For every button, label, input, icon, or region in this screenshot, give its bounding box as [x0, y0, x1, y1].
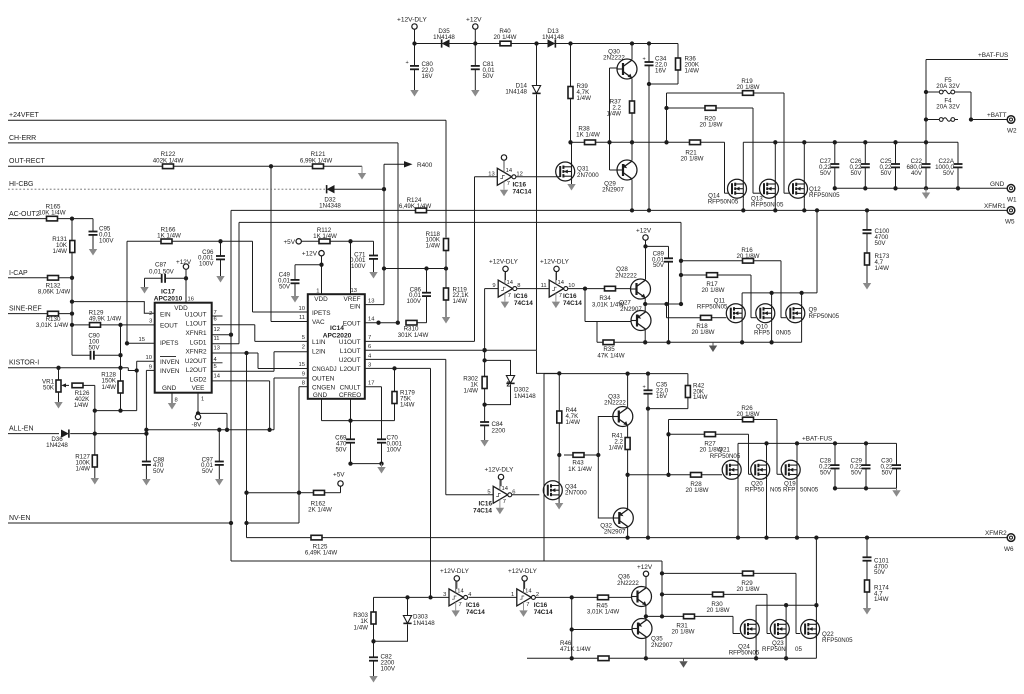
wire EIN jog [72, 302, 155, 314]
svg-text:15: 15 [139, 337, 145, 343]
wire Q10 source [771, 323, 773, 343]
wire R28 to Q21 gate [669, 474, 691, 476]
svg-text:CFREO: CFREO [339, 392, 361, 399]
wire inverter4 to inverter1 [469, 596, 517, 598]
off-page arrow after R121 [361, 166, 363, 173]
svg-text:1K 1/4W: 1K 1/4W [576, 132, 600, 139]
wire XFNR2 to CNGADJ [257, 353, 259, 369]
capacitor C80 [414, 44, 416, 66]
svg-text:VREF: VREF [343, 296, 360, 303]
wire Q34 drain [558, 455, 560, 481]
rail gnd caps bottom [835, 187, 1007, 189]
svg-text:14: 14 [368, 316, 375, 322]
svg-text:1K 1/4W: 1K 1/4W [568, 466, 592, 473]
wire Q21 vert [737, 443, 739, 460]
svg-text:3: 3 [149, 319, 152, 325]
wire R21 to Q14 gate [724, 142, 726, 193]
mosfet Q13 [760, 179, 779, 198]
wire VEE rail [198, 412, 227, 414]
wire Q35 base node down [571, 630, 573, 659]
svg-text:100V: 100V [381, 665, 396, 672]
wire F5 to F4 [958, 91, 971, 93]
svg-text:IC16: IC16 [479, 501, 493, 508]
wire R43 to bases [598, 417, 613, 456]
svg-text:L1OUT: L1OUT [186, 321, 207, 328]
svg-text:L1OUT: L1OUT [340, 348, 361, 355]
svg-text:7: 7 [459, 602, 462, 608]
svg-text:14: 14 [507, 280, 514, 286]
wire D32 to R400 riser [335, 188, 385, 190]
mosfet Q24 [740, 620, 759, 639]
wire inverter6 to Q34 gate [512, 494, 540, 496]
svg-text:+12V: +12V [302, 250, 318, 257]
wire Q28 Q27 emitters [644, 298, 646, 311]
svg-text:74C14: 74C14 [514, 300, 533, 307]
wire bank4 gate riser [661, 561, 663, 616]
svg-text:100V: 100V [351, 263, 366, 270]
wire R26 to Q19 gate [776, 420, 778, 475]
wire Q27 collector [644, 330, 646, 342]
line XFMR2 [247, 537, 312, 539]
svg-text:1: 1 [201, 397, 204, 403]
svg-text:1N4348: 1N4348 [319, 203, 341, 210]
svg-text:IPETS: IPETS [312, 310, 330, 317]
svg-text:IC16: IC16 [534, 602, 548, 609]
svg-text:10: 10 [146, 355, 152, 361]
svg-text:14: 14 [214, 373, 221, 379]
svg-text:KISTOR-I: KISTOR-I [9, 360, 39, 367]
svg-text:+12V-DLY: +12V-DLY [508, 568, 538, 575]
svg-text:3: 3 [368, 362, 371, 368]
line XFMR1 [231, 209, 416, 211]
svg-text:50V: 50V [483, 73, 495, 80]
svg-text:RFP50N05: RFP50N05 [708, 199, 739, 206]
wire I-CAP to EOUT row [71, 278, 73, 325]
svg-text:50V: 50V [653, 262, 665, 269]
svg-text:20A 32V: 20A 32V [936, 83, 960, 90]
mosfet Q22 [801, 620, 820, 639]
svg-text:+: + [643, 385, 646, 391]
svg-text:11: 11 [299, 315, 305, 321]
wire Q20 vert [766, 443, 768, 460]
transistor Q35 [632, 619, 652, 639]
svg-text:XFNR2: XFNR2 [186, 349, 207, 356]
svg-text:12: 12 [516, 171, 522, 177]
wire R166 to IPETS bus [252, 241, 254, 312]
terminal -8V [197, 412, 199, 415]
svg-text:3,01K 1/4W: 3,01K 1/4W [587, 609, 619, 616]
svg-text:2N2907: 2N2907 [651, 642, 673, 649]
wire R303 D303 loop [373, 597, 375, 612]
svg-text:1: 1 [316, 288, 319, 294]
svg-text:7: 7 [503, 499, 506, 505]
svg-text:6,49K 1/4W: 6,49K 1/4W [305, 550, 337, 557]
svg-text:7: 7 [508, 293, 511, 299]
svg-text:20 1/8W: 20 1/8W [671, 629, 694, 636]
junction SINE-REF [70, 311, 74, 315]
capacitor C90 [71, 325, 73, 355]
wire Q12 source [803, 198, 805, 210]
svg-text:3: 3 [443, 592, 446, 598]
svg-text:HI-CBG: HI-CBG [9, 181, 34, 188]
svg-text:2N2222: 2N2222 [617, 580, 639, 587]
svg-text:CNULT: CNULT [340, 384, 361, 391]
svg-text:50V: 50V [881, 469, 893, 476]
svg-text:RFP: RFP [783, 487, 795, 494]
wire C35 node to XFMR2 [647, 409, 649, 538]
svg-text:OUT-RECT: OUT-RECT [9, 158, 46, 165]
inverter IC16 top 13-12 [501, 155, 506, 160]
svg-text:ALL-EN: ALL-EN [9, 425, 34, 432]
wire R28 node [628, 474, 669, 476]
svg-text:40V: 40V [911, 170, 923, 177]
svg-text:1/4W: 1/4W [607, 110, 622, 117]
svg-text:50V: 50V [880, 170, 892, 177]
svg-text:20 1/8W: 20 1/8W [699, 122, 722, 129]
wire Q29 emitter to XFMR1 [631, 180, 633, 211]
transistor Q29 [617, 160, 637, 180]
svg-text:APC2010: APC2010 [154, 296, 183, 303]
svg-text:1/4W: 1/4W [693, 394, 708, 401]
wire between inverters A-B [517, 288, 549, 290]
pin GND stub IC14 [321, 399, 323, 421]
svg-text:GND: GND [313, 392, 328, 399]
mosfet Q31 [556, 162, 575, 181]
wire Q14 drain riser [742, 142, 744, 179]
wire XFMR1 riser left [230, 210, 232, 561]
capacitor C84 [484, 405, 486, 422]
svg-text:5: 5 [214, 364, 217, 370]
rail C35 R42 top [544, 373, 688, 375]
wire +24VFET down to R118 [445, 120, 447, 237]
junction XFNR2 riser [244, 351, 248, 355]
capacitor C95 [92, 219, 94, 232]
svg-text:50V: 50V [850, 170, 862, 177]
wire Q10 drain [771, 293, 773, 304]
svg-text:RFP50N05: RFP50N05 [822, 637, 853, 644]
svg-text:13: 13 [368, 298, 374, 304]
junction OUT-RECT/VAC [269, 164, 273, 168]
svg-text:11: 11 [214, 336, 220, 342]
svg-text:8: 8 [175, 398, 178, 404]
wire R129 to EOUT pin [72, 324, 90, 326]
wire L2OUT to L2IN [273, 352, 275, 372]
mosfet Q34 [543, 481, 562, 500]
svg-text:301K 1/4W: 301K 1/4W [398, 332, 429, 339]
wire inverter to Q31 gate [516, 176, 560, 178]
svg-text:2N2222: 2N2222 [615, 272, 637, 279]
wire Q35 base [571, 597, 573, 629]
svg-text:74C14: 74C14 [466, 609, 485, 616]
wire gate feed riser bank2 [680, 222, 682, 304]
pin 1 VEE [197, 393, 199, 414]
wire inverter B to R34 [567, 288, 631, 290]
wire Q23 source [785, 639, 787, 659]
svg-text:+: + [406, 60, 409, 66]
wire Q36 Q35 emitters [645, 606, 647, 620]
wire XFMR2 riser [246, 353, 248, 538]
svg-text:1/4W: 1/4W [74, 402, 89, 409]
svg-text:20 1/8W: 20 1/8W [685, 487, 708, 494]
wire Q12 drain riser [803, 142, 805, 179]
svg-text:W5: W5 [1005, 219, 1015, 226]
svg-text:10K 1/4W: 10K 1/4W [38, 209, 65, 216]
svg-text:74C14: 74C14 [513, 188, 532, 195]
svg-text:I-CAP: I-CAP [9, 270, 28, 277]
line LGD1 bus [239, 221, 681, 223]
svg-text:74C14: 74C14 [563, 300, 582, 307]
wire Q35 emitter down [645, 638, 647, 658]
ground bank2 [712, 343, 714, 346]
svg-text:14: 14 [502, 486, 509, 492]
junction R112 [330, 240, 374, 242]
svg-text:1/4W: 1/4W [102, 384, 117, 391]
svg-text:LGD2: LGD2 [190, 377, 207, 384]
svg-text:2K 1/4W: 2K 1/4W [308, 507, 332, 514]
svg-text:16V: 16V [422, 73, 434, 80]
svg-text:+BATT: +BATT [987, 112, 1007, 119]
svg-text:1/4W: 1/4W [685, 67, 700, 74]
svg-text:1/4W: 1/4W [464, 388, 479, 395]
svg-text:7: 7 [526, 602, 529, 608]
svg-text:50V: 50V [851, 469, 863, 476]
svg-text:13: 13 [214, 345, 220, 351]
svg-text:1N4248: 1N4248 [46, 442, 68, 449]
svg-text:W1: W1 [1007, 197, 1017, 204]
wire NV-EN ext [247, 522, 300, 524]
svg-text:EIN: EIN [160, 311, 171, 318]
svg-text:RFP50N05: RFP50N05 [729, 650, 760, 657]
wire Q27 base [584, 289, 586, 322]
svg-text:20 1/4W: 20 1/4W [493, 34, 516, 41]
svg-text:L2IN: L2IN [312, 349, 326, 356]
wire L2OUT drop to inverter 3-4 [430, 368, 432, 597]
rail bank3 top [738, 442, 897, 444]
svg-text:INVEN: INVEN [160, 359, 180, 366]
svg-text:50V: 50V [88, 344, 100, 351]
svg-text:8: 8 [302, 380, 305, 386]
svg-text:7: 7 [507, 181, 510, 187]
wire R20 to Q13 gate [752, 108, 754, 193]
svg-text:RFP5: RFP5 [754, 330, 770, 337]
wire +12V to VDD [185, 269, 187, 278]
wire VAC drop [270, 166, 272, 321]
svg-text:5: 5 [302, 335, 305, 341]
svg-text:+12V-DLY: +12V-DLY [540, 259, 570, 266]
svg-text:50V: 50V [153, 468, 165, 475]
wire 12v [474, 29, 476, 43]
capacitor C34 [648, 44, 650, 62]
svg-text:IC16: IC16 [514, 293, 528, 300]
svg-text:100V: 100V [99, 238, 114, 245]
wire L1OUT node to D302 net [484, 350, 486, 404]
svg-text:8,06K 1/4W: 8,06K 1/4W [38, 289, 70, 296]
svg-text:9: 9 [492, 283, 495, 289]
svg-text:100V: 100V [387, 446, 402, 453]
svg-text:20A 32V: 20A 32V [936, 104, 960, 111]
line EIN feed [384, 268, 446, 270]
wire R129 junction down [120, 325, 122, 381]
svg-text:13: 13 [351, 288, 357, 294]
wire LGD1 riser [238, 222, 240, 343]
resistor R174 [865, 580, 870, 592]
svg-text:49,9K 1/4W: 49,9K 1/4W [89, 316, 121, 323]
svg-text:EOUT: EOUT [160, 322, 178, 329]
svg-text:+BAT-FUS: +BAT-FUS [978, 52, 1008, 59]
wire R400 riser [383, 164, 385, 304]
svg-text:1/4W: 1/4W [566, 419, 581, 426]
svg-text:IC16: IC16 [466, 602, 480, 609]
wire CH-ERR down to EOUT node [397, 143, 399, 323]
wire Q23 drain [785, 605, 787, 619]
svg-text:0N05: 0N05 [776, 330, 791, 337]
svg-text:14: 14 [558, 280, 565, 286]
rail pot bottoms [95, 410, 137, 412]
svg-text:W6: W6 [1004, 546, 1014, 553]
wire Q9 source [801, 323, 803, 343]
svg-text:50K: 50K [43, 385, 55, 392]
wire Q33 collector up [627, 374, 629, 407]
rail bank3 caps bottom [835, 487, 897, 489]
svg-text:Z: Z [507, 380, 512, 389]
svg-text:3,01K 1/4W: 3,01K 1/4W [36, 322, 68, 329]
svg-text:1/4W: 1/4W [76, 466, 91, 473]
svg-text:1N4148: 1N4148 [433, 34, 455, 41]
arrow R400 [384, 163, 404, 165]
svg-text:50V: 50V [943, 170, 955, 177]
svg-text:+24VFET: +24VFET [9, 112, 39, 119]
svg-text:1/4W: 1/4W [53, 248, 68, 255]
svg-text:L2OUT: L2OUT [340, 366, 361, 373]
capacitor C82 [373, 641, 375, 657]
svg-text:RFP50N05: RFP50N05 [697, 304, 728, 311]
wire R179 bottom [351, 420, 395, 422]
wire R16 to Q9 gate [780, 261, 782, 318]
svg-text:14: 14 [506, 168, 513, 174]
wire Q30 Q29 base rail [610, 67, 618, 69]
pin 8 GND [171, 393, 173, 403]
wire Q24 source [755, 639, 757, 659]
svg-text:+5V: +5V [283, 239, 295, 246]
pin CFREO stub [350, 399, 352, 421]
transistor Q32 [613, 508, 633, 528]
svg-text:IC17: IC17 [161, 289, 175, 296]
wire gate feed riser bank3 [668, 420, 670, 475]
svg-text:05: 05 [777, 202, 784, 209]
wire R27 to Q20 gate [748, 434, 750, 474]
svg-text:INVEN: INVEN [160, 368, 180, 375]
mosfet Q12 [789, 179, 808, 198]
wire inverter2 to R45 [535, 596, 631, 598]
wire Q13 drain riser [774, 142, 776, 179]
ground bank3 caps [896, 488, 898, 490]
line lower drive bus [231, 560, 662, 562]
wire C35 R42 bottom [648, 408, 688, 410]
wire Q32 emitter to XFMR2 [627, 528, 629, 538]
capacitor C81 [474, 44, 476, 66]
wire R31 to Q24 gate [732, 616, 734, 633]
svg-text:1N4148: 1N4148 [542, 34, 564, 41]
svg-text:XFMR1: XFMR1 [984, 203, 1006, 210]
svg-text:14: 14 [525, 589, 532, 595]
svg-text:OUTEN: OUTEN [312, 376, 335, 383]
rail bank4 drains [756, 604, 816, 606]
svg-text:1N4148: 1N4148 [413, 620, 435, 627]
svg-text:R400: R400 [417, 162, 433, 169]
wire 12vdly [414, 29, 416, 43]
svg-text:1/4W: 1/4W [874, 596, 889, 603]
wire R30 to Q23 gate [766, 594, 768, 633]
svg-text:EIN: EIN [350, 303, 361, 310]
svg-text:SINE-REF: SINE-REF [9, 306, 42, 313]
svg-text:RFP50N05: RFP50N05 [809, 192, 840, 199]
wire ALL-EN to pin9 [145, 370, 147, 433]
svg-text:NV-EN: NV-EN [9, 515, 30, 522]
svg-text:XFMR2: XFMR2 [985, 530, 1007, 537]
wire L1OUT to L1IN [254, 325, 256, 342]
wire C69 C70 gnd rail [351, 463, 382, 465]
wire to +BATT [969, 117, 973, 121]
svg-text:+12V: +12V [637, 564, 653, 571]
mosfet Q20 [751, 460, 770, 479]
svg-text:100V: 100V [407, 298, 422, 305]
wire U1OUT riser to top inverter [474, 177, 476, 342]
svg-text:10: 10 [299, 306, 305, 312]
svg-text:1/4W: 1/4W [426, 243, 441, 250]
mosfet Q19 [781, 460, 800, 479]
svg-text:U1OUT: U1OUT [339, 339, 361, 346]
svg-text:16V: 16V [656, 393, 668, 400]
svg-text:W2: W2 [1007, 128, 1017, 135]
svg-text:16V: 16V [655, 67, 667, 74]
wire ALL-EN cont [70, 433, 146, 435]
wire Q30 collector [631, 44, 633, 60]
svg-text:2N7000: 2N7000 [577, 172, 599, 179]
wire Q31 drain-source [571, 142, 573, 162]
svg-text:1/4W: 1/4W [577, 95, 592, 102]
svg-text:+12V: +12V [466, 17, 482, 24]
wire Q9 drain [801, 293, 803, 304]
capacitor C100 [866, 210, 868, 229]
svg-text:1/4W: 1/4W [875, 265, 890, 272]
ground arrow bat bank [925, 189, 927, 193]
svg-text:20 1/8W: 20 1/8W [736, 586, 759, 593]
diode D302 [506, 376, 514, 384]
svg-text:VDD: VDD [314, 296, 328, 303]
svg-text:50V: 50V [874, 569, 886, 576]
svg-text:+12V-DLY: +12V-DLY [440, 568, 470, 575]
svg-text:6: 6 [368, 344, 371, 350]
svg-text:RFP50N05: RFP50N05 [809, 313, 840, 320]
svg-text:9: 9 [149, 364, 152, 370]
wire R310 to C86 [417, 322, 427, 324]
svg-text:+12V-DLY: +12V-DLY [485, 467, 515, 474]
wire CNGEN drop [298, 387, 300, 493]
resistor R36 [677, 44, 679, 59]
wire R35 stub [596, 322, 598, 343]
wire Q22 vert [815, 538, 817, 659]
wire OUTEN drop [273, 378, 275, 430]
svg-text:2: 2 [302, 345, 305, 351]
wire KISTOR jog to pin10 [128, 368, 136, 371]
svg-text:1/4W: 1/4W [609, 445, 624, 452]
rail bank2 sources [597, 341, 802, 343]
svg-text:7: 7 [214, 310, 217, 316]
svg-text:N05: N05 [770, 487, 782, 494]
wire Q19 vert [796, 443, 798, 460]
svg-text:20 1/8W: 20 1/8W [680, 156, 703, 163]
svg-text:20 1/8W: 20 1/8W [701, 287, 724, 294]
